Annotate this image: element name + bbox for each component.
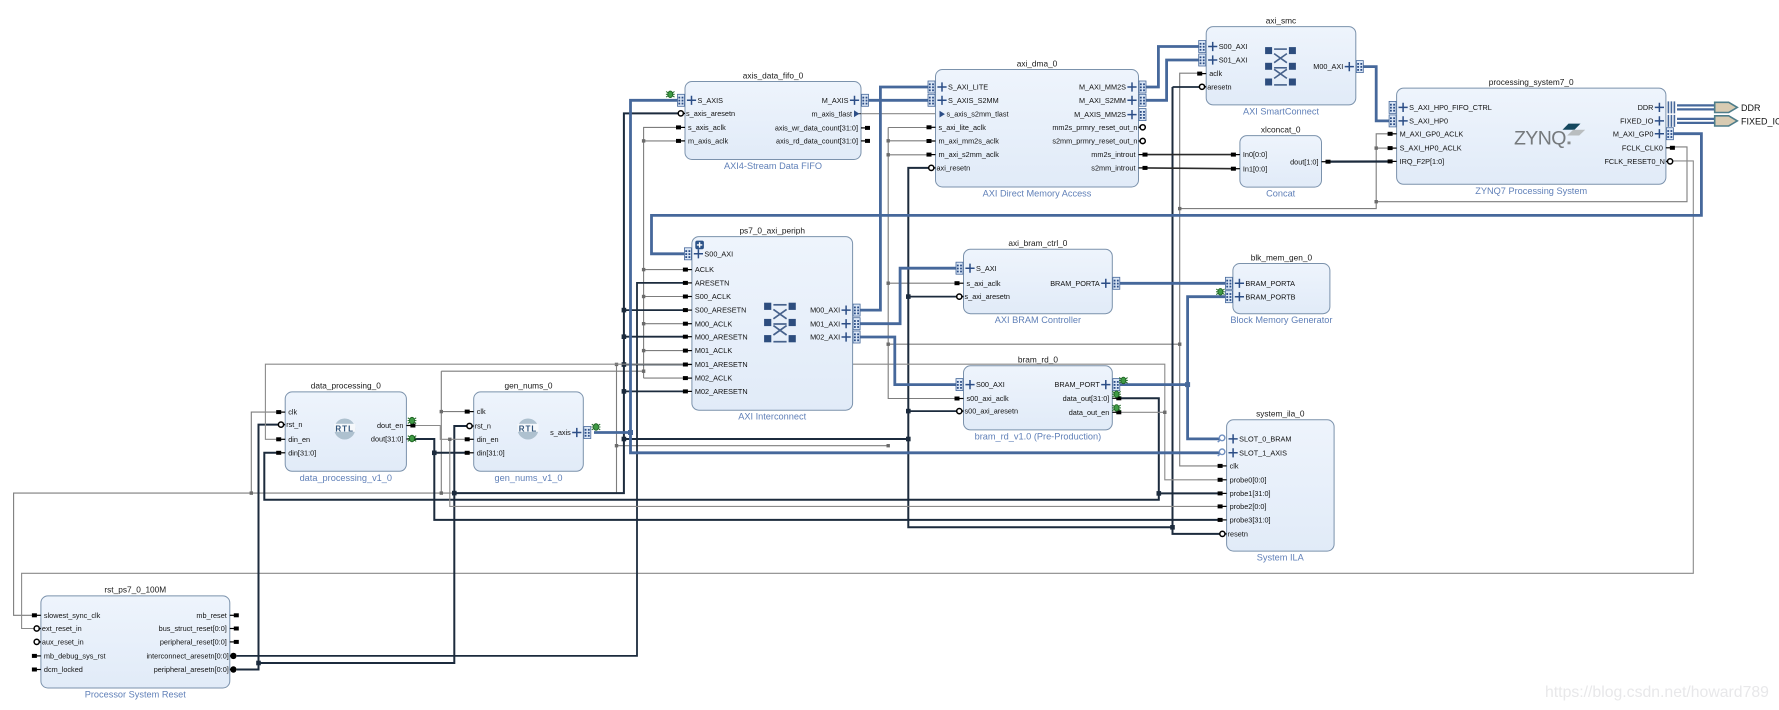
svg-text:mb_debug_sys_rst: mb_debug_sys_rst xyxy=(44,652,106,661)
svg-text:gen_nums_v1_0: gen_nums_v1_0 xyxy=(495,473,563,483)
wire net peripheral_aresetn to axi_smc aresetn xyxy=(1173,86,1200,88)
svg-text:S_AXI_HP0_FIFO_CTRL: S_AXI_HP0_FIFO_CTRL xyxy=(1409,103,1492,112)
wire net peripheral_aresetn to s_axis_aresetn xyxy=(454,113,678,493)
wire net FCLK_CLK0 to gen_nums clk xyxy=(441,411,466,413)
svg-text:M01_ACLK: M01_ACLK xyxy=(695,346,732,355)
junction peripheral_aresetn xyxy=(622,389,627,394)
wire net bram_rd BRAM_PORT xyxy=(1119,383,1188,386)
svg-text:System ILA: System ILA xyxy=(1257,553,1305,563)
wire net gen_nums s_axis xyxy=(594,431,631,434)
wire net M_AXI_MM2S to S00_AXI xyxy=(1146,47,1200,88)
junction dout_en junction xyxy=(448,438,451,441)
wire net m_axis_tlast xyxy=(861,113,938,115)
external port FIXED_IO xyxy=(1715,116,1779,127)
svg-text:S_AXI: S_AXI xyxy=(976,264,997,273)
svg-text:clk: clk xyxy=(1230,462,1239,471)
external port DDR xyxy=(1715,102,1761,113)
wire net data_out_en to probe0 xyxy=(1119,412,1220,480)
wire net FCLK_CLK0 crosslink xyxy=(617,445,889,447)
svg-text:AXI Direct Memory Access: AXI Direct Memory Access xyxy=(983,189,1092,199)
svg-text:S_AXI_HP0_ACLK: S_AXI_HP0_ACLK xyxy=(1400,144,1462,153)
svg-text:dout[31:0]: dout[31:0] xyxy=(371,435,403,444)
wire net dout[31:0] to probe3 xyxy=(414,439,1220,520)
svg-text:axi_resetn: axi_resetn xyxy=(937,164,971,173)
svg-text:peripheral_aresetn[0:0]: peripheral_aresetn[0:0] xyxy=(154,665,229,674)
wire net FCLK_CLK0 to M01_ACLK xyxy=(644,350,686,352)
svg-text:M_AXIS_MM2S: M_AXIS_MM2S xyxy=(1074,110,1126,119)
block data_processing_0 xyxy=(276,381,415,483)
junction clock net xyxy=(1375,146,1378,149)
junction data_out_en junction xyxy=(1163,411,1166,414)
svg-text:M00_ARESETN: M00_ARESETN xyxy=(695,332,748,341)
svg-text:din[31:0]: din[31:0] xyxy=(477,448,505,457)
svg-text:din_en: din_en xyxy=(288,435,310,444)
junction clock net xyxy=(887,282,890,285)
svg-text:din[31:0]: din[31:0] xyxy=(288,448,316,457)
block xlconcat_0 xyxy=(1231,124,1331,198)
wire net FCLK_RESET0_N to ext_reset_in xyxy=(22,161,1694,629)
wire net FCLK_CLK0 to M_AXI_GP0_ACLK xyxy=(1376,134,1390,202)
junction clock net xyxy=(887,139,890,142)
svg-text:ACLK: ACLK xyxy=(695,265,714,274)
svg-text:dout[1:0]: dout[1:0] xyxy=(1290,157,1318,166)
svg-text:probe0[0:0]: probe0[0:0] xyxy=(1230,475,1267,484)
junction clock net xyxy=(440,491,443,494)
wire net FCLK_CLK0 to data_processing clk xyxy=(251,412,278,493)
debug marker BRAM_PORTB xyxy=(1216,289,1225,296)
icon periph expand button xyxy=(695,241,704,250)
svg-text:FIXED_IO: FIXED_IO xyxy=(1741,116,1779,126)
svg-text:In1[0:0]: In1[0:0] xyxy=(1243,164,1267,173)
svg-text:S00_ACLK: S00_ACLK xyxy=(695,292,731,301)
wire net FCLK_CLK0 to ACLK xyxy=(644,269,686,271)
wire net FCLK_CLK0 to S00_ACLK xyxy=(644,296,686,298)
block gen_nums_0 xyxy=(465,381,591,483)
svg-text:M_AXI_GP0: M_AXI_GP0 xyxy=(1613,129,1654,138)
block processing_system7_0 xyxy=(1388,77,1675,196)
wire net FCLK_CLK0 to S_AXI_HP0_ACLK xyxy=(1376,147,1390,149)
junction clock net xyxy=(642,295,645,298)
svg-text:clk: clk xyxy=(477,407,486,416)
svg-text:bus_struct_reset[0:0]: bus_struct_reset[0:0] xyxy=(159,624,227,633)
wire net FCLK_CLK0 to m_axis_aclk xyxy=(644,140,679,142)
svg-text:M_AXI_MM2S: M_AXI_MM2S xyxy=(1079,83,1126,92)
junction peripheral_aresetn xyxy=(622,334,627,339)
svg-text:M00_ACLK: M00_ACLK xyxy=(695,319,732,328)
svg-text:axi_dma_0: axi_dma_0 xyxy=(1017,58,1058,68)
svg-text:s_axis_aresetn: s_axis_aresetn xyxy=(686,109,735,118)
svg-text:ZYNQ: ZYNQ xyxy=(1514,127,1566,149)
block rst_ps7_0_100M xyxy=(32,585,239,700)
svg-text:M01_AXI: M01_AXI xyxy=(810,319,840,328)
svg-text:m_axis_aclk: m_axis_aclk xyxy=(688,137,728,146)
junction clock net xyxy=(440,410,443,413)
svg-text:s_axi_lite_aclk: s_axi_lite_aclk xyxy=(939,123,987,132)
junction dout junction xyxy=(432,451,437,456)
svg-text:Concat: Concat xyxy=(1266,189,1296,199)
svg-text:data_out_en: data_out_en xyxy=(1069,408,1110,417)
debug marker dout[31:0] xyxy=(408,435,417,442)
junction data_out junction xyxy=(1157,491,1162,496)
svg-text:rst_n: rst_n xyxy=(286,420,302,429)
wire net mm2s_introut to In0 xyxy=(1145,154,1234,156)
svg-text:In0[0:0]: In0[0:0] xyxy=(1243,150,1267,159)
svg-text:https://blog.csdn.net/howard78: https://blog.csdn.net/howard789 xyxy=(1545,684,1769,701)
wire net FCLK_CLK0 upper crosslink xyxy=(441,370,643,372)
block ps7_0_axi_periph xyxy=(683,225,860,421)
svg-text:s2mm_introut: s2mm_introut xyxy=(1091,164,1135,173)
svg-text:M02_ACLK: M02_ACLK xyxy=(695,374,732,383)
svg-text:S01_AXI: S01_AXI xyxy=(1219,56,1248,65)
svg-text:dout_en: dout_en xyxy=(377,421,403,430)
wire net FCLK_CLK0 to system_ila clk xyxy=(1180,209,1220,466)
icon periph crossbar xyxy=(764,303,796,343)
junction clock net xyxy=(642,370,645,373)
svg-text:S00_ARESETN: S00_ARESETN xyxy=(695,306,747,315)
junction peripheral_aresetn xyxy=(622,362,627,367)
wire net M_AXIS to S_AXIS_S2MM xyxy=(861,99,929,102)
wire net FCLK_CLK0 mid link xyxy=(888,343,1179,345)
block axis_data_fifo_0 xyxy=(676,70,870,171)
junction peripheral_aresetn xyxy=(256,661,261,666)
wire net FCLK_CLK0 to m_axi_mm2s_aclk xyxy=(888,140,928,142)
svg-text:clk: clk xyxy=(288,408,297,417)
wire net FCLK_CLK0 drop to s00_axi_aclk xyxy=(888,128,956,399)
block axi_smc xyxy=(1197,15,1363,116)
block axi_dma_0 xyxy=(927,58,1148,198)
wire net M_AXI_S2MM to S01_AXI xyxy=(1146,60,1200,100)
svg-text:axis_wr_data_count[31:0]: axis_wr_data_count[31:0] xyxy=(775,124,858,133)
junction peripheral_aresetn xyxy=(906,437,911,442)
wire net FIXED_IO to external port xyxy=(1677,119,1714,123)
junction peripheral_aresetn xyxy=(452,491,457,496)
svg-text:probe3[31:0]: probe3[31:0] xyxy=(1230,516,1271,525)
svg-text:ext_reset_in: ext_reset_in xyxy=(42,624,82,633)
svg-text:peripheral_reset[0:0]: peripheral_reset[0:0] xyxy=(160,638,227,647)
junction clock net xyxy=(887,444,890,447)
svg-text:S_AXIS: S_AXIS xyxy=(698,96,724,105)
svg-text:probe1[31:0]: probe1[31:0] xyxy=(1230,489,1271,498)
svg-text:M_AXI_S2MM: M_AXI_S2MM xyxy=(1079,96,1126,105)
svg-text:gen_nums_0: gen_nums_0 xyxy=(505,381,553,391)
svg-text:s2mm_prmry_reset_out_n: s2mm_prmry_reset_out_n xyxy=(1052,137,1137,146)
wire net s2mm_introut to In1 xyxy=(1145,167,1234,170)
wire net FCLK_CLK0 to m_axi_s2mm_aclk xyxy=(888,154,928,156)
svg-text:M01_ARESETN: M01_ARESETN xyxy=(695,360,748,369)
svg-text:slowest_sync_clk: slowest_sync_clk xyxy=(44,611,101,620)
wire net peripheral_aresetn to M02_ARESETN xyxy=(624,390,686,392)
wire net peripheral_aresetn to M01_ARESETN xyxy=(624,364,686,366)
junction peripheral_aresetn xyxy=(622,308,627,313)
wire net BRAM_PORTB to SLOT_0_BRAM xyxy=(1188,297,1226,439)
wire net S_AXIS to fifo xyxy=(631,100,679,432)
svg-text:s_axis_s2mm_tlast: s_axis_s2mm_tlast xyxy=(947,110,1009,119)
svg-text:M_AXIS: M_AXIS xyxy=(822,96,849,105)
svg-text:FCLK_RESET0_N: FCLK_RESET0_N xyxy=(1604,157,1664,166)
svg-text:m_axis_tlast: m_axis_tlast xyxy=(811,109,852,118)
svg-text:mm2s_prmry_reset_out_n: mm2s_prmry_reset_out_n xyxy=(1052,123,1137,132)
wire net interconnect_aresetn to ARESETN xyxy=(237,283,686,656)
svg-text:rst_ps7_0_100M: rst_ps7_0_100M xyxy=(104,585,166,595)
wire net data_out[31:0] to probe1 xyxy=(1159,492,1220,494)
svg-text:mb_reset: mb_reset xyxy=(196,611,226,620)
debug marker dout_en xyxy=(408,417,417,424)
svg-text:S00_AXI: S00_AXI xyxy=(704,249,733,258)
wire net peripheral_aresetn to system_ila resetn xyxy=(1173,87,1220,534)
svg-text:mm2s_introut: mm2s_introut xyxy=(1091,150,1135,159)
svg-text:system_ila_0: system_ila_0 xyxy=(1256,409,1305,419)
wire net FCLK_CLK0 to s_axi_lite_aclk xyxy=(888,127,928,129)
wire net dout_en to probe2 xyxy=(450,439,1220,506)
svg-text:axis_data_fifo_0: axis_data_fifo_0 xyxy=(743,70,804,80)
svg-text:din_en: din_en xyxy=(477,435,499,444)
svg-text:BRAM_PORTB: BRAM_PORTB xyxy=(1245,292,1295,301)
svg-text:S_AXIS_S2MM: S_AXIS_S2MM xyxy=(948,96,999,105)
svg-text:AXI Interconnect: AXI Interconnect xyxy=(738,412,806,422)
block axi_bram_ctrl_0 xyxy=(955,238,1120,325)
svg-text:ZYNQ7 Processing System: ZYNQ7 Processing System xyxy=(1475,186,1587,196)
svg-text:xlconcat_0: xlconcat_0 xyxy=(1261,124,1301,134)
wire net peripheral_aresetn to s_axi_aresetn xyxy=(908,296,956,298)
svg-text:AXI SmartConnect: AXI SmartConnect xyxy=(1243,106,1320,116)
block blk_mem_gen_0 xyxy=(1225,252,1332,325)
wire net S_AXIS to SLOT_1_AXIS xyxy=(631,433,1220,453)
svg-text:blk_mem_gen_0: blk_mem_gen_0 xyxy=(1251,252,1313,262)
junction clock net xyxy=(887,153,890,156)
svg-text:M02_AXI: M02_AXI xyxy=(810,333,840,342)
svg-text:axis_rd_data_count[31:0]: axis_rd_data_count[31:0] xyxy=(776,137,858,146)
wire net data_out[31:0] to data_processing din xyxy=(264,398,1159,499)
junction peripheral_aresetn xyxy=(906,409,911,414)
wire net M02_AXI to bram_rd S00_AXI xyxy=(853,337,957,385)
svg-text:SLOT_1_AXIS: SLOT_1_AXIS xyxy=(1239,448,1287,457)
wire net FCLK_CLK0 to M00_ACLK xyxy=(644,323,686,325)
svg-text:bram_rd_v1.0 (Pre-Production): bram_rd_v1.0 (Pre-Production) xyxy=(975,431,1102,441)
junction clock net xyxy=(615,444,618,447)
wire net FCLK_CLK0 trunk xyxy=(1180,147,1687,209)
svg-text:data_out[31:0]: data_out[31:0] xyxy=(1063,394,1110,403)
wire net FCLK_CLK0 to slowest_sync_clk xyxy=(14,364,617,615)
svg-text:rst_n: rst_n xyxy=(475,422,491,431)
wire net peripheral_aresetn to s00_axi_aresetn xyxy=(908,410,956,412)
svg-text:processing_system7_0: processing_system7_0 xyxy=(1489,77,1574,87)
icon ZYNQ logo xyxy=(1514,124,1585,150)
svg-text:probe2[0:0]: probe2[0:0] xyxy=(1230,502,1267,511)
svg-text:resetn: resetn xyxy=(1228,530,1248,539)
wire net concat dout to IRQ_F2P xyxy=(1328,160,1390,162)
junction peripheral_aresetn xyxy=(622,437,627,442)
junction S_AXIS junction xyxy=(628,430,633,435)
junction clock net xyxy=(642,349,645,352)
icon axi_smc crossbar xyxy=(1265,47,1296,85)
debug marker S_AXIS xyxy=(666,91,675,98)
svg-text:AXI BRAM Controller: AXI BRAM Controller xyxy=(995,315,1081,325)
wire net peripheral_aresetn to gen_nums rst_n xyxy=(259,426,467,663)
wire net dout_en to gen_nums din_en xyxy=(414,426,467,440)
svg-text:IRQ_F2P[1:0]: IRQ_F2P[1:0] xyxy=(1400,157,1445,166)
debug marker data_out_en xyxy=(1112,405,1121,412)
debug marker gen_nums s_axis xyxy=(592,424,601,431)
svg-text:s00_axi_aresetn: s00_axi_aresetn xyxy=(965,407,1019,416)
wire net peripheral_aresetn to S00_ARESETN xyxy=(624,309,686,311)
wire net peripheral_aresetn to data_processing rst_n xyxy=(237,425,279,670)
svg-text:DDR: DDR xyxy=(1638,103,1654,112)
junction clock net xyxy=(615,363,618,366)
wire net M01_AXI to bram ctrl S_AXI xyxy=(853,268,957,324)
svg-text:interconnect_aresetn[0:0]: interconnect_aresetn[0:0] xyxy=(146,652,228,661)
svg-text:M02_ARESETN: M02_ARESETN xyxy=(695,387,748,396)
block system_ila_0 xyxy=(1218,409,1335,563)
svg-text:S00_AXI: S00_AXI xyxy=(976,380,1005,389)
wire net M00_AXI to S_AXI_LITE xyxy=(853,87,929,310)
svg-text:AXI4-Stream Data FIFO: AXI4-Stream Data FIFO xyxy=(724,161,822,171)
svg-text:ps7_0_axi_periph: ps7_0_axi_periph xyxy=(739,225,805,235)
svg-text:M00_AXI: M00_AXI xyxy=(1313,62,1343,71)
svg-text:Block Memory Generator: Block Memory Generator xyxy=(1230,315,1332,325)
svg-text:S_AXI_LITE: S_AXI_LITE xyxy=(948,83,988,92)
junction clock net xyxy=(642,322,645,325)
svg-text:FIXED_IO: FIXED_IO xyxy=(1620,117,1654,126)
wire net FCLK_CLK0 to axi_smc aclk xyxy=(1180,73,1200,208)
svg-text:Processor System Reset: Processor System Reset xyxy=(85,690,187,700)
svg-text:RTL: RTL xyxy=(519,424,538,433)
svg-text:data_processing_v1_0: data_processing_v1_0 xyxy=(300,473,392,483)
debug marker BRAM_PORT xyxy=(1119,377,1128,384)
svg-text:m_axi_s2mm_aclk: m_axi_s2mm_aclk xyxy=(939,150,1000,159)
svg-text:SLOT_0_BRAM: SLOT_0_BRAM xyxy=(1239,435,1291,444)
svg-text:RTL: RTL xyxy=(335,424,354,433)
wire net peripheral_aresetn to axi_resetn xyxy=(624,168,929,439)
junction BRAM_PORTB junction xyxy=(1185,382,1190,387)
svg-text:S_AXI_HP0: S_AXI_HP0 xyxy=(1409,117,1448,126)
wire net FCLK_CLK0 to s_axis_aclk xyxy=(644,127,679,378)
wire net peripheral_aresetn to M00_ARESETN xyxy=(624,336,686,338)
wire net FCLK_CLK0 to M02_ACLK xyxy=(644,377,686,379)
svg-text:s_axi_aclk: s_axi_aclk xyxy=(967,279,1001,288)
svg-text:ARESETN: ARESETN xyxy=(695,279,729,288)
icon data_processing RTL logo xyxy=(334,419,355,440)
svg-text:M_AXI_GP0_ACLK: M_AXI_GP0_ACLK xyxy=(1400,129,1464,138)
svg-text:bram_rd_0: bram_rd_0 xyxy=(1018,355,1059,365)
svg-text:BRAM_PORTA: BRAM_PORTA xyxy=(1050,279,1100,288)
junction clock net xyxy=(1178,207,1181,210)
wire net peripheral_aresetn link xyxy=(908,439,1172,527)
svg-text:aresetn: aresetn xyxy=(1207,82,1231,91)
svg-text:FCLK_CLK0: FCLK_CLK0 xyxy=(1622,143,1663,152)
svg-text:dcm_locked: dcm_locked xyxy=(44,665,83,674)
debug marker data_out xyxy=(1112,391,1121,398)
svg-text:s00_axi_aclk: s00_axi_aclk xyxy=(967,394,1010,403)
junction clock net xyxy=(887,343,890,346)
wire net dout[31:0] to gen_nums din xyxy=(434,452,466,454)
svg-text:s_axis: s_axis xyxy=(550,428,571,437)
wire net FCLK_CLK0 gen_nums rail xyxy=(440,371,442,493)
icon gen_nums RTL logo xyxy=(518,419,539,440)
junction clock net xyxy=(1178,343,1181,346)
svg-text:aclk: aclk xyxy=(1209,69,1222,78)
wire net BRAM_PORTA xyxy=(1119,282,1226,285)
wire net FCLK_CLK0 to s_axi_aclk xyxy=(888,282,956,284)
junction clock net xyxy=(1375,200,1378,203)
svg-text:S00_AXI: S00_AXI xyxy=(1219,42,1248,51)
svg-text:BRAM_PORTA: BRAM_PORTA xyxy=(1245,279,1295,288)
svg-text:DDR: DDR xyxy=(1741,103,1761,113)
junction clock net xyxy=(642,268,645,271)
wire net M_AXI_GP0 to S00_AXI periph xyxy=(652,134,1702,254)
svg-text:m_axi_mm2s_aclk: m_axi_mm2s_aclk xyxy=(939,137,1000,146)
svg-text:aux_reset_in: aux_reset_in xyxy=(42,638,84,647)
junction peripheral_aresetn xyxy=(1170,525,1175,530)
junction peripheral_aresetn xyxy=(906,294,911,299)
svg-text:axi_bram_ctrl_0: axi_bram_ctrl_0 xyxy=(1008,238,1067,248)
svg-text:data_processing_0: data_processing_0 xyxy=(311,381,382,391)
svg-text:BRAM_PORT: BRAM_PORT xyxy=(1055,380,1101,389)
block bram_rd_0 xyxy=(955,355,1122,442)
wire net smc M00_AXI to S_AXI_HP0 xyxy=(1363,67,1390,121)
svg-text:s_axis_aclk: s_axis_aclk xyxy=(688,123,726,132)
junction clock net xyxy=(250,491,253,494)
wire net DDR to external port xyxy=(1677,105,1714,109)
svg-text:axi_smc: axi_smc xyxy=(1266,15,1296,25)
wire net data_out_en to data_processing din_en xyxy=(265,364,1164,439)
svg-text:s_axi_aresetn: s_axi_aresetn xyxy=(965,292,1010,301)
svg-text:M00_AXI: M00_AXI xyxy=(810,306,840,315)
junction clock net xyxy=(642,139,645,142)
